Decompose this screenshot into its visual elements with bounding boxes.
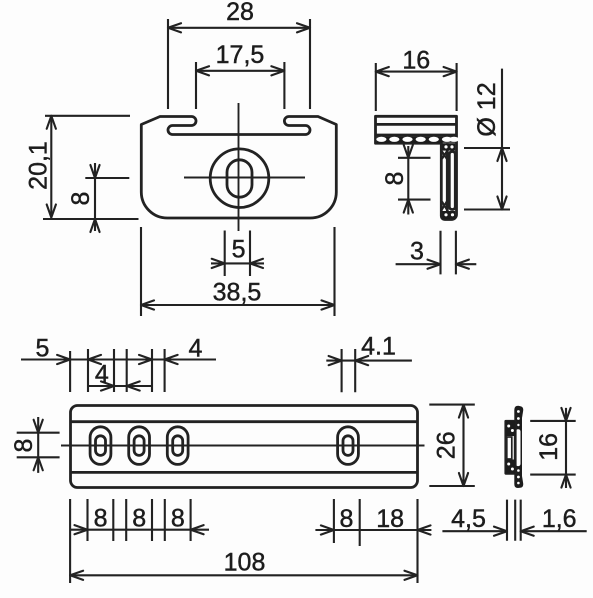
strip slot — [516, 429, 521, 466]
svg-text:17,5: 17,5 — [216, 41, 265, 69]
svg-text:26: 26 — [433, 431, 461, 459]
plate outline — [71, 406, 418, 488]
hole 2 outer — [129, 427, 150, 465]
hole 2 inner — [134, 436, 144, 456]
dimension 8 (right view) — [381, 145, 431, 215]
front block bottom hatch — [506, 460, 515, 474]
svg-text:18: 18 — [376, 505, 404, 533]
svg-text:8: 8 — [94, 505, 108, 533]
hatch band top line — [376, 134, 457, 137]
hole 3 inner — [173, 436, 183, 456]
dimension row 8 / 18 bottom right — [315, 499, 431, 546]
front block middle slot — [507, 437, 512, 459]
svg-text:4,5: 4,5 — [451, 505, 486, 533]
dimension 4 (lower, between holes 1-2) — [89, 361, 152, 391]
dimension 38,5 — [141, 227, 335, 316]
horizontal centerline — [184, 177, 305, 179]
svg-text:38,5: 38,5 — [213, 279, 262, 307]
dimension 8 (slot height, left) — [10, 417, 60, 473]
svg-text:8: 8 — [339, 505, 353, 533]
svg-text:5: 5 — [232, 236, 246, 264]
leg slot — [449, 152, 455, 210]
dimension 8 (hole center to bottom) — [67, 163, 129, 232]
slot 5x8 — [227, 160, 252, 197]
front block top hatch — [506, 421, 515, 436]
dimension Ø12 — [464, 69, 510, 210]
svg-text:8: 8 — [381, 172, 409, 186]
dimension row 8 8 8 bottom — [70, 499, 209, 541]
dimension 28 — [168, 0, 310, 109]
svg-text:4: 4 — [95, 361, 109, 389]
L-profile outline — [376, 116, 457, 219]
svg-text:Ø 12: Ø 12 — [473, 82, 501, 136]
svg-text:8: 8 — [67, 192, 95, 206]
svg-text:8: 8 — [132, 505, 146, 533]
hole 3 outer — [167, 427, 188, 465]
circle boss Ø12 — [210, 149, 269, 208]
svg-text:108: 108 — [224, 549, 266, 577]
svg-text:8: 8 — [171, 505, 185, 533]
svg-text:8: 8 — [10, 439, 38, 453]
hole 1 inner — [96, 436, 106, 456]
svg-text:20,1: 20,1 — [25, 141, 53, 190]
lower groove line — [71, 471, 418, 474]
dimension 4.1 (slot width hole 4) — [326, 333, 412, 393]
bracket outline with rolled top hooks — [141, 117, 336, 219]
dimension row 5 / 4 / 4 top — [21, 335, 216, 393]
dimension 16 (side view) — [530, 408, 576, 488]
svg-text:1,6: 1,6 — [542, 505, 577, 533]
bar hatch band — [376, 136, 459, 143]
hole 1 outer — [90, 427, 111, 465]
svg-text:5: 5 — [36, 335, 50, 363]
svg-text:28: 28 — [226, 0, 254, 26]
back spring strip — [514, 406, 523, 488]
vertical centerline — [238, 103, 240, 231]
dimension 3 (leg thickness) — [396, 231, 477, 275]
inner leg line — [446, 143, 449, 217]
svg-text:4.1: 4.1 — [361, 333, 396, 361]
dimension 17,5 — [196, 41, 284, 109]
dimensions 4,5 / 1,6 — [442, 500, 586, 541]
svg-text:3: 3 — [410, 238, 424, 266]
leg bottom hatch block — [443, 211, 456, 219]
leg top hatch block — [443, 143, 456, 150]
strip hatch speckles — [517, 410, 520, 484]
front block outline — [506, 421, 515, 473]
left strip hatch X top — [442, 152, 447, 159]
inner plate line — [376, 123, 457, 126]
svg-text:4: 4 — [189, 335, 203, 363]
upper groove line — [71, 420, 418, 423]
svg-text:16: 16 — [535, 433, 563, 461]
dimension 26 (plate height) — [429, 405, 475, 486]
hole 4 outer — [338, 427, 359, 465]
dimension 16 (top right) — [376, 46, 457, 111]
svg-text:16: 16 — [402, 46, 430, 74]
plate centerline — [61, 445, 425, 447]
dimension 20,1 — [25, 116, 139, 219]
dimension 108 — [70, 499, 417, 583]
dimension 5 (slot width) — [211, 231, 264, 277]
hole 4 inner — [343, 436, 353, 456]
left strip hatch X bottom — [442, 202, 447, 210]
